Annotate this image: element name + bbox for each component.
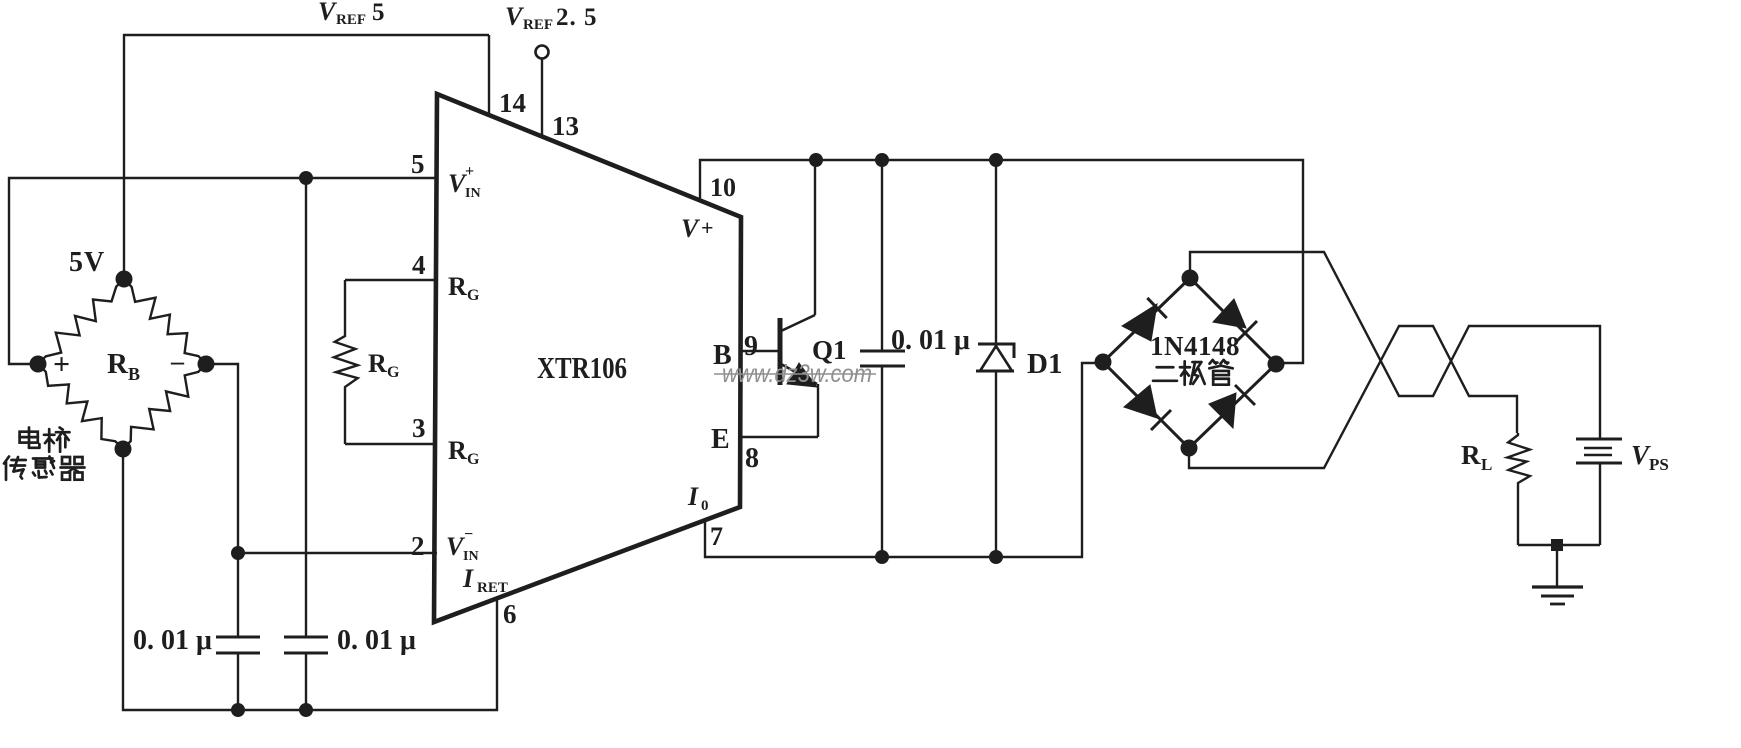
svg-text:+: +: [465, 163, 474, 180]
svg-text:0. 01 μ: 0. 01 μ: [337, 625, 416, 656]
svg-text:G: G: [467, 287, 480, 304]
svg-text:XTR106: XTR106: [537, 350, 627, 385]
svg-text:0: 0: [701, 498, 709, 514]
svg-text:R: R: [1461, 440, 1481, 470]
svg-text:8: 8: [745, 443, 759, 474]
svg-text:R: R: [448, 272, 467, 301]
svg-text:E: E: [711, 424, 730, 455]
svg-text:5: 5: [411, 149, 425, 179]
svg-text:0. 01 μ: 0. 01 μ: [891, 325, 970, 356]
svg-text:IN: IN: [465, 186, 481, 201]
svg-text:D1: D1: [1027, 348, 1062, 380]
svg-text:G: G: [387, 364, 400, 381]
svg-text:0. 01 μ: 0. 01 μ: [133, 625, 212, 656]
svg-text:+: +: [701, 215, 714, 240]
svg-text:10: 10: [710, 173, 736, 202]
svg-text:1N4148: 1N4148: [1150, 331, 1240, 361]
svg-text:V: V: [681, 214, 701, 243]
svg-text:V: V: [505, 2, 525, 31]
svg-text:IN: IN: [463, 549, 479, 564]
svg-text:5: 5: [372, 0, 385, 26]
svg-text:V: V: [1631, 440, 1651, 470]
svg-text:5V: 5V: [69, 247, 105, 278]
svg-text:I: I: [687, 482, 699, 511]
svg-text:B: B: [128, 364, 140, 384]
svg-text:R: R: [448, 436, 467, 465]
svg-text:V: V: [318, 0, 338, 26]
svg-text:9: 9: [744, 331, 758, 362]
svg-text:–: –: [170, 347, 185, 376]
svg-text:R: R: [368, 349, 387, 378]
svg-text:PS: PS: [1649, 455, 1669, 474]
svg-text:REF: REF: [523, 17, 553, 33]
svg-text:6: 6: [503, 599, 517, 629]
svg-text:RET: RET: [477, 580, 508, 596]
svg-text:4: 4: [412, 250, 426, 280]
svg-text:+: +: [53, 348, 70, 381]
svg-text:3: 3: [412, 413, 426, 443]
svg-text:I: I: [462, 564, 474, 593]
svg-text:G: G: [467, 451, 480, 468]
svg-text:13: 13: [552, 111, 579, 141]
svg-text:2: 2: [411, 531, 425, 561]
svg-text:REF: REF: [336, 12, 366, 28]
svg-text:L: L: [1481, 455, 1492, 474]
svg-text:−: −: [464, 526, 473, 543]
svg-text:2. 5: 2. 5: [556, 4, 598, 31]
svg-text:7: 7: [710, 522, 723, 551]
svg-text:14: 14: [499, 88, 526, 118]
svg-text:R: R: [107, 348, 129, 380]
